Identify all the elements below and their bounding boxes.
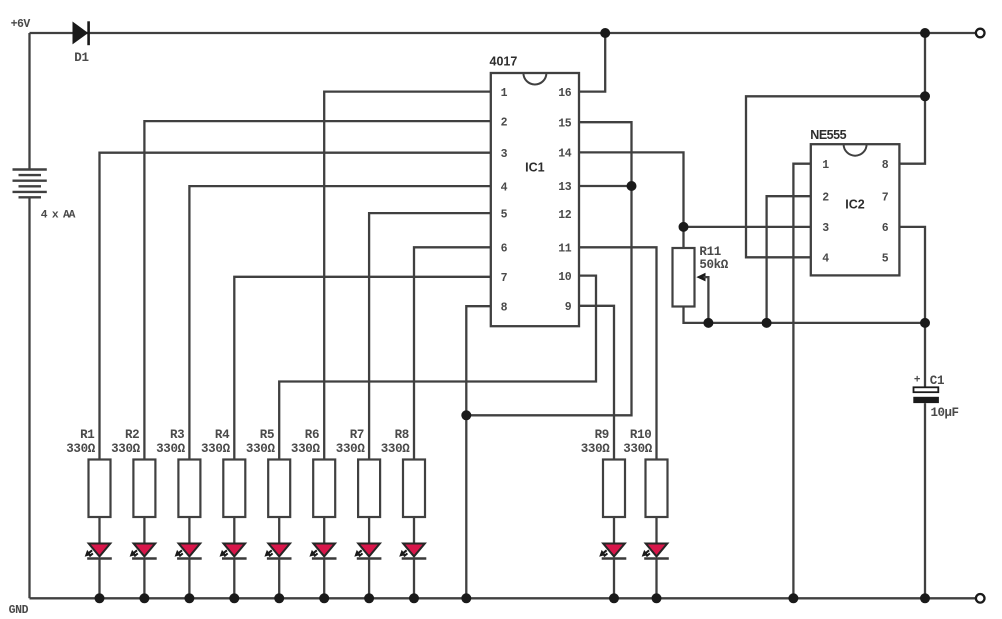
- svg-text:R2: R2: [125, 428, 139, 442]
- svg-text:R6: R6: [305, 428, 319, 442]
- capacitor C1: [913, 387, 939, 403]
- svg-text:330Ω: 330Ω: [581, 442, 611, 456]
- LED D6: [311, 544, 337, 559]
- junction top rail pin16 riser: [600, 28, 610, 38]
- resistor R5: [268, 460, 290, 518]
- svg-text:R7: R7: [350, 428, 364, 442]
- wire IC2 pin 4 to supply net: [746, 96, 925, 257]
- junction ground C1: [920, 593, 930, 603]
- wire R5 to LED: [278, 517, 280, 544]
- wire IC1 pin 10 to R5: [279, 276, 596, 460]
- junction ground pin8 riser: [461, 593, 471, 603]
- junction R10 ground: [652, 593, 662, 603]
- wire C1 to ground: [924, 403, 926, 598]
- wire R8 LED to ground: [413, 559, 415, 599]
- wire IC1 pin 6 to R8: [414, 247, 491, 459]
- svg-text:1: 1: [501, 87, 508, 100]
- LED D1: [86, 544, 112, 559]
- svg-text:R11: R11: [699, 245, 721, 259]
- wire R7 to LED: [368, 517, 370, 544]
- junction R5 ground: [274, 593, 284, 603]
- svg-text:14: 14: [558, 148, 572, 161]
- svg-text:4: 4: [501, 181, 508, 194]
- resistor R2: [133, 460, 155, 518]
- junction 555 pins 4-8 supply net: [920, 91, 930, 101]
- svg-text:330Ω: 330Ω: [623, 442, 653, 456]
- svg-text:R1: R1: [80, 428, 94, 442]
- wire IC1 pin 5 to R7: [369, 213, 491, 459]
- svg-text:330Ω: 330Ω: [66, 442, 96, 456]
- wire IC1 pin 2 to R2: [144, 121, 490, 459]
- wire R6 LED to ground: [323, 559, 325, 599]
- svg-text:IC1: IC1: [525, 161, 545, 175]
- LED D5: [266, 544, 292, 559]
- junction R7 ground: [364, 593, 374, 603]
- junction R3 ground: [184, 593, 194, 603]
- svg-text:5: 5: [501, 208, 508, 221]
- junction pin2 mid rail: [762, 318, 772, 328]
- wire IC2 pin 8 to +6V rail: [899, 33, 925, 164]
- svg-text:IC2: IC2: [845, 198, 865, 212]
- svg-text:2: 2: [822, 191, 829, 204]
- svg-text:D1: D1: [74, 51, 88, 65]
- svg-text:4017: 4017: [490, 54, 518, 68]
- wire IC1 pin 3 to R1: [100, 153, 491, 460]
- LED D4: [221, 544, 247, 559]
- wire IC1 pin 9 to R9: [579, 306, 614, 460]
- LED D8: [401, 544, 427, 559]
- wire IC1 pins 15,13 to ground link: [466, 122, 631, 415]
- svg-text:R5: R5: [260, 428, 274, 442]
- wire R4 LED to ground: [233, 559, 235, 599]
- wire IC1 pin 7 to R4: [234, 277, 491, 460]
- svg-text:7: 7: [501, 272, 508, 285]
- resistor R6: [313, 460, 335, 518]
- diode D1: [73, 21, 89, 45]
- svg-text:330Ω: 330Ω: [111, 442, 141, 456]
- resistor R11 potentiometer: [673, 248, 695, 307]
- svg-text:4 x AA: 4 x AA: [41, 210, 76, 222]
- resistor R8: [403, 460, 425, 518]
- terminal output positive: [976, 29, 985, 38]
- wire R9 to LED: [613, 517, 615, 544]
- wire IC1 pin 14 clock from 555: [579, 152, 684, 248]
- junction top rail 555 supply: [920, 28, 930, 38]
- svg-text:330Ω: 330Ω: [381, 442, 411, 456]
- svg-text:10: 10: [558, 271, 572, 284]
- svg-text:NE555: NE555: [810, 128, 846, 142]
- resistor R3: [178, 460, 200, 518]
- svg-text:1: 1: [822, 159, 829, 172]
- wire mid rail to C1: [924, 323, 926, 388]
- wire IC2 pin 1 to ground: [793, 164, 810, 599]
- svg-text:5: 5: [882, 253, 889, 266]
- LED D3: [176, 544, 202, 559]
- junction IC1 pins 13-15: [627, 181, 637, 191]
- svg-text:330Ω: 330Ω: [156, 442, 186, 456]
- wire R10 to LED: [655, 517, 657, 544]
- svg-text:8: 8: [501, 301, 508, 314]
- junction R9 ground: [609, 593, 619, 603]
- LED D7: [356, 544, 382, 559]
- wire R1 LED to ground: [98, 559, 100, 599]
- junction wiper mid rail: [703, 318, 713, 328]
- svg-text:15: 15: [558, 117, 572, 130]
- resistor R10: [646, 460, 668, 518]
- junction R2 ground: [139, 593, 149, 603]
- svg-text:R10: R10: [630, 428, 652, 442]
- wire battery positive lead: [28, 33, 30, 170]
- wire +6V top rail: [30, 32, 976, 34]
- junction R4 ground: [229, 593, 239, 603]
- wire R2 to LED: [143, 517, 145, 544]
- svg-text:R4: R4: [215, 428, 230, 442]
- svg-text:6: 6: [882, 222, 889, 235]
- wire battery negative lead: [28, 197, 30, 598]
- svg-text:3: 3: [822, 222, 829, 235]
- svg-text:6: 6: [501, 243, 508, 256]
- svg-text:C1: C1: [930, 374, 944, 388]
- wire IC2 pin 2 to mid rail: [767, 196, 811, 323]
- wire R10 LED to ground: [655, 559, 657, 599]
- svg-text:R8: R8: [395, 428, 409, 442]
- svg-text:11: 11: [558, 243, 572, 256]
- svg-text:+6V: +6V: [11, 18, 31, 31]
- wire R4 to LED: [233, 517, 235, 544]
- wire R7 LED to ground: [368, 559, 370, 599]
- LED D10: [643, 544, 669, 559]
- wire IC1 pin 8 to ground: [466, 306, 491, 598]
- svg-text:3: 3: [501, 148, 508, 161]
- wire GND bottom rail: [30, 597, 976, 599]
- resistor R4: [223, 460, 245, 518]
- svg-text:330Ω: 330Ω: [291, 442, 321, 456]
- junction R1 ground: [95, 593, 105, 603]
- svg-text:7: 7: [882, 191, 889, 204]
- terminal output negative: [976, 594, 985, 603]
- junction R11 top pin3 pin14: [679, 222, 689, 232]
- svg-text:330Ω: 330Ω: [336, 442, 366, 456]
- wire R3 to LED: [188, 517, 190, 544]
- junction ground 555 pin1: [788, 593, 798, 603]
- junction pin8 ground riser: [461, 410, 471, 420]
- resistor R1: [89, 460, 111, 518]
- svg-text:8: 8: [882, 159, 889, 172]
- svg-text:16: 16: [558, 87, 572, 100]
- battery BT1 4xAA: [13, 170, 47, 198]
- resistor R9: [603, 460, 625, 518]
- svg-text:2: 2: [501, 116, 508, 129]
- svg-text:330Ω: 330Ω: [201, 442, 231, 456]
- svg-text:12: 12: [558, 209, 572, 222]
- resistor R7: [358, 460, 380, 518]
- wire R8 to LED: [413, 517, 415, 544]
- svg-text:330Ω: 330Ω: [246, 442, 276, 456]
- wire R1 to LED: [98, 517, 100, 544]
- svg-text:50kΩ: 50kΩ: [699, 258, 728, 272]
- wire IC1 pin 13 stub: [579, 185, 632, 187]
- wire R11 bottom to mid rail: [684, 307, 926, 323]
- wire IC2 pin 3 output to R11: [684, 226, 811, 228]
- LED D9: [601, 544, 627, 559]
- wire IC1 pin 4 to R3: [189, 186, 490, 459]
- svg-text:R3: R3: [170, 428, 184, 442]
- wire IC1 pin 16 to +6V rail: [579, 33, 605, 92]
- R11 wiper arrow: [696, 273, 708, 323]
- junction pin6 C1 mid rail: [920, 318, 930, 328]
- wire R9 LED to ground: [613, 559, 615, 599]
- wire IC2 pin 6 to mid rail: [899, 227, 925, 323]
- svg-text:10µF: 10µF: [931, 406, 959, 420]
- wire IC1 pin 11 to R10: [579, 247, 657, 459]
- svg-text:4: 4: [822, 253, 829, 266]
- junction R8 ground: [409, 593, 419, 603]
- LED D2: [131, 544, 157, 559]
- IC U2 NE555 timer body: [811, 144, 900, 275]
- svg-text:R9: R9: [595, 428, 609, 442]
- wire R5 LED to ground: [278, 559, 280, 599]
- svg-text:13: 13: [558, 181, 572, 194]
- wire IC1 pin 1 to R6: [324, 92, 491, 460]
- junction R6 ground: [319, 593, 329, 603]
- svg-text:9: 9: [565, 301, 572, 314]
- wire R3 LED to ground: [188, 559, 190, 599]
- svg-text:+: +: [914, 375, 921, 387]
- IC U1 4017 decade counter body: [491, 73, 579, 326]
- svg-text:GND: GND: [9, 604, 29, 617]
- wire R6 to LED: [323, 517, 325, 544]
- wire R2 LED to ground: [143, 559, 145, 599]
